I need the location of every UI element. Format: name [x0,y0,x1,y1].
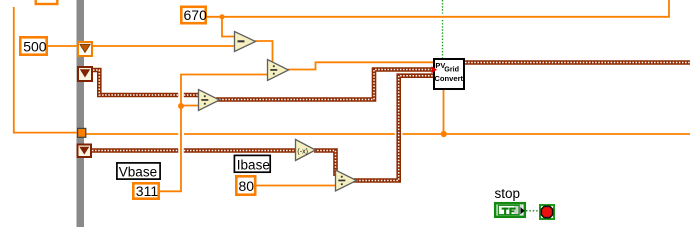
numeric constant 311 (Vbase) [133,183,158,199]
svg-text:80: 80 [239,178,255,194]
wire: 80 to divide4 bottom input [257,185,337,187]
wire: Vbase 311 vertical feed [160,75,267,192]
cluster wire: shift register 3 to negate [92,148,297,153]
svg-text:311: 311 [136,183,159,199]
wire: shift register to subtract bottom input [93,45,235,47]
wire: divide2 output to PV Grid Convert (with jog) [288,62,433,69]
stop boolean terminal TF [495,203,525,217]
cluster wire: PV Grid Convert output to right edge [465,60,690,65]
cluster wire: shift register 2 to divide3 top input [93,70,200,95]
coercion arrow on subVI input [432,66,438,73]
numeric constant 500 [20,37,46,54]
wire: branch to divide3 bottom input [181,105,199,107]
wire: 500 to left shift register [48,45,78,47]
stop button [540,205,554,219]
wire: PV Grid Convert bottom output down to rail [443,90,445,134]
negate function (-x) [296,140,316,161]
left shift register 2 (cluster) [78,67,92,81]
wire: dotted boolean from TF to stop button [526,210,539,212]
wire: long orange horizontal rail y=134 [86,133,690,135]
svg-text:500: 500 [23,38,47,54]
numeric constant 80 (Ibase) [236,176,255,194]
wire: green dotted boolean wire into PV Grid Convert top [442,0,444,59]
wire: subtract output down to divide2 [255,41,273,63]
subVI PV Grid Convert [434,59,464,89]
divide function 3 [199,90,220,111]
subtract function [235,32,256,52]
junction on rail under subVI [441,131,447,137]
cluster wire: divide3 output to PV Grid Convert input 2 [216,70,433,100]
left shift register 1 (orange, 500) [78,42,92,56]
numeric constant (cropped) top-left [36,0,58,4]
svg-text:670: 670 [184,7,208,23]
divide function 2 [268,60,289,81]
svg-text:Vbase: Vbase [119,165,157,180]
cluster wire: negate output down into divide4 [314,151,336,177]
label Ibase [234,155,270,172]
svg-text:Convert: Convert [434,74,463,83]
junction on Vbase feed [178,103,184,109]
cluster wire: divide4 output up to PV Grid Convert input 3 [353,76,433,181]
wire: orange vertical from cropped constant at top-left down to bottom rail [14,7,77,133]
svg-text:stop: stop [495,186,521,201]
numeric constant 670 [181,7,207,23]
wire: 670 to right edge (turns up) [207,0,669,17]
left shift register 3 (cluster) [78,145,92,158]
junction at 670 branch [219,14,224,19]
label Vbase [117,163,160,180]
divide function 4 [336,170,357,191]
wire: 670 branch down into subtract top input [222,17,234,37]
tunnel: solid orange square on border (bottom rail) [78,128,86,137]
svg-text:Grid: Grid [444,64,459,73]
svg-text:(-x): (-x) [297,146,308,155]
svg-text:Ibase: Ibase [237,158,270,173]
while-loop left border [77,0,85,227]
